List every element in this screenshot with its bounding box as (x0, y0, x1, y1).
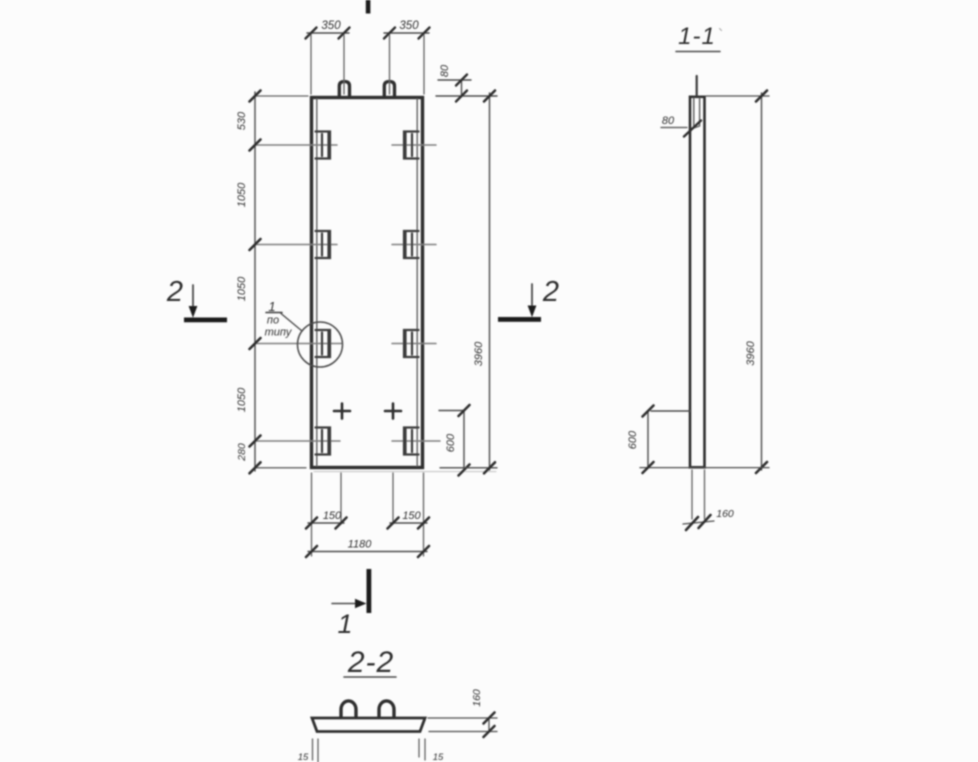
tick (384, 28, 395, 39)
section marker 1 bottom arrow line (332, 603, 358, 605)
section 2-2 loop right (379, 701, 394, 717)
row centerline 4 right (392, 440, 440, 442)
svg-text:80: 80 (439, 64, 451, 77)
tick (686, 517, 698, 530)
tick (250, 462, 261, 473)
dim line 150 right (390, 522, 427, 524)
svg-text:80: 80 (662, 115, 675, 127)
tick (250, 338, 261, 349)
row centerline 1 right (392, 144, 436, 146)
section marker 2 right arrow line (531, 284, 533, 308)
svg-text:1050: 1050 (236, 387, 248, 412)
section marker 2 left bar (184, 318, 227, 323)
detail label 1 underline (266, 312, 282, 314)
svg-text:160: 160 (471, 689, 483, 707)
tick (388, 518, 399, 529)
svg-text:280: 280 (236, 443, 248, 462)
extension line panel left top (310, 35, 312, 94)
section 1-1 tick on bar (684, 121, 701, 137)
front 3960 dim line (489, 93, 491, 470)
tick (336, 518, 347, 529)
row centerline 2 left (255, 244, 337, 246)
dim 80 upper line (438, 79, 471, 81)
section 1-1 600 top extension (651, 410, 690, 412)
dim line 1180 (308, 551, 427, 553)
embed bracket row3 left (316, 330, 331, 357)
dim line 350 right (384, 32, 429, 34)
embed bracket row2 right (404, 231, 419, 258)
section 1-1 embedded loop lines (694, 98, 700, 128)
dim line 150 left (308, 522, 344, 524)
section marker 1 top bar (366, 0, 371, 14)
svg-text:15: 15 (433, 752, 444, 762)
tick (459, 465, 470, 476)
dim 80 connector (461, 80, 463, 96)
svg-text:600: 600 (445, 433, 457, 452)
panel outline (312, 98, 423, 468)
tick (456, 91, 467, 102)
panel inner face line right (416, 99, 418, 466)
section 2-2 160 ext bottom (429, 731, 497, 733)
section 2-2 15 left ext a (312, 739, 314, 760)
section 1-1 3960 top extension (706, 95, 769, 97)
cross mark left (334, 404, 350, 419)
tick (484, 91, 495, 102)
dim 600 top extension (439, 410, 464, 412)
embed bracket row1 right (404, 132, 419, 159)
tick (306, 28, 317, 39)
section 1-1 bottom 160 extension right (704, 470, 706, 519)
tick (250, 239, 261, 250)
row centerline 2 right (392, 244, 436, 246)
embed bracket row2 left (316, 231, 331, 258)
extension below panel left edge (311, 473, 313, 556)
svg-text:150: 150 (323, 510, 342, 522)
svg-text:типу: типу (265, 327, 293, 339)
svg-text:1050: 1050 (236, 182, 248, 207)
extension below panel right edge (423, 473, 425, 556)
section marker 1 bottom bar (367, 569, 372, 613)
section 2-2 15 right ext a (418, 739, 420, 757)
section 1-1 600 dim line (647, 411, 649, 468)
left chain line (254, 92, 256, 471)
row centerline 1 left (255, 144, 337, 146)
section marker 2 left arrowhead (189, 306, 198, 318)
lifting loop right (front) (384, 82, 394, 97)
section 1-1 bar outline (690, 97, 705, 468)
svg-text:2: 2 (166, 276, 183, 308)
svg-text:350: 350 (399, 20, 419, 32)
cross mark right (385, 404, 401, 419)
svg-text:1-1: 1-1 (678, 23, 716, 50)
tick (456, 75, 467, 86)
tick (250, 436, 261, 447)
svg-text:2-2: 2-2 (347, 646, 394, 679)
row centerline 3 right (392, 343, 436, 345)
svg-text:350: 350 (321, 20, 341, 32)
extension below cross left (340, 473, 342, 524)
section 1-1 3960 dim line (761, 93, 763, 470)
lifting loop left (front) (339, 82, 349, 97)
tick (756, 91, 767, 102)
tick (643, 462, 654, 473)
row centerline 4 left (255, 440, 340, 442)
section marker 2 left arrow line (192, 285, 194, 308)
tick (418, 518, 429, 529)
extension below cross right (392, 473, 394, 524)
section 2-2 160 ext top (428, 717, 497, 719)
panel bottom ghost line (314, 471, 496, 473)
section 1-1 loop rod above (696, 76, 698, 96)
dim line 350 left (307, 32, 349, 34)
extension line panel right top (423, 35, 425, 94)
dim 600 line (463, 411, 465, 471)
section 1-1 label 80 leader (661, 127, 687, 129)
bottom extension left (255, 467, 306, 469)
svg-text:15: 15 (298, 752, 309, 762)
section marker 2 right arrowhead (528, 306, 537, 318)
section 2-2 loop left (341, 701, 356, 717)
tick (699, 515, 711, 528)
embed bracket row4 right (404, 428, 419, 455)
section 2-2 160 connector (488, 718, 490, 732)
section marker 1 bottom arrowhead (355, 599, 367, 608)
section 1-1 title underline (676, 51, 720, 53)
section 2-2 15 right ext b (424, 739, 426, 760)
tick (339, 28, 350, 39)
tick (250, 91, 261, 102)
row centerline 3 left (255, 343, 342, 345)
svg-text:530: 530 (236, 111, 248, 130)
tick (459, 405, 470, 416)
svg-text:2: 2 (542, 276, 559, 308)
tick (250, 140, 261, 151)
tick (484, 726, 495, 737)
section 1-1 160 dim line (683, 521, 714, 524)
section 2-2 body (312, 718, 425, 732)
tick (484, 713, 495, 724)
section 1-1 title tick (720, 29, 722, 31)
extension line loop right (389, 35, 391, 94)
svg-text:1: 1 (337, 609, 352, 639)
tick (306, 518, 317, 529)
section 1-1 bottom 160 extension left (691, 470, 693, 519)
tick (418, 546, 429, 557)
svg-text:по: по (267, 315, 279, 327)
tick (643, 406, 654, 417)
embed bracket row3 right (404, 330, 419, 357)
section 2-2 15 left ext b (317, 739, 319, 762)
svg-text:1180: 1180 (348, 539, 373, 551)
dim 80 lower line / top extension (436, 95, 497, 97)
svg-text:1050: 1050 (236, 276, 248, 301)
embed bracket row4 left (316, 428, 331, 455)
section 2-2 title underline (344, 676, 396, 678)
top extension left (255, 95, 308, 97)
section 1-1 bottom extension (640, 467, 769, 469)
svg-text:1: 1 (268, 299, 275, 314)
section marker 2 right bar (498, 317, 541, 322)
svg-text:160: 160 (716, 508, 734, 520)
svg-text:3960: 3960 (473, 341, 485, 366)
panel inner face line left (316, 99, 318, 466)
svg-text:150: 150 (402, 510, 421, 522)
tick (419, 28, 430, 39)
svg-text:600: 600 (627, 430, 639, 449)
tick (306, 546, 317, 557)
embed bracket row1 left (316, 132, 331, 159)
tick (756, 462, 767, 473)
detail leader line (281, 314, 302, 332)
front 3960 bottom extension (440, 467, 497, 469)
detail circle (298, 322, 343, 367)
svg-text:3960: 3960 (745, 340, 757, 365)
tick (484, 462, 495, 473)
extension line loop left (343, 35, 345, 94)
